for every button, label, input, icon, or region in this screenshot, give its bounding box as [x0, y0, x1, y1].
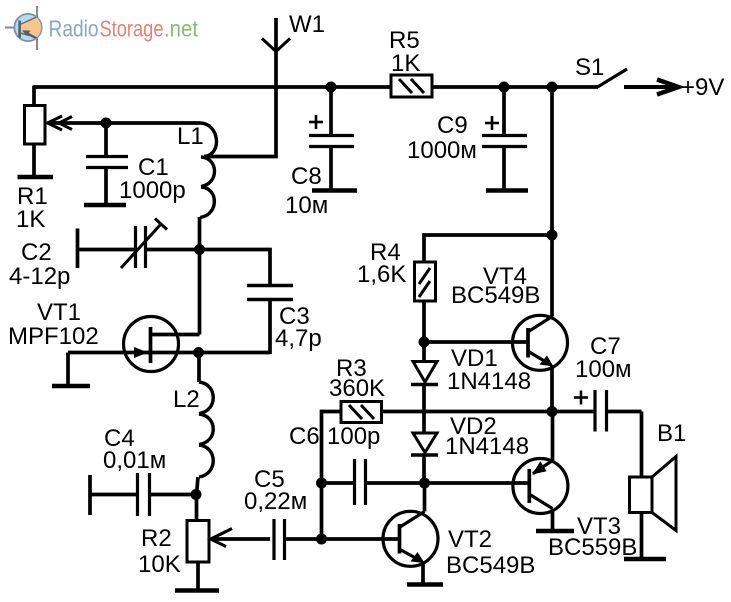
node C8 top	[326, 82, 337, 93]
wire VT1 gate/source row	[68, 351, 270, 355]
capacitor C9	[482, 87, 527, 190]
svg-text:1000м: 1000м	[407, 137, 477, 164]
wire node I to VT3 base	[425, 481, 530, 485]
svg-text:R2: R2	[141, 525, 172, 552]
svg-text:S1: S1	[575, 54, 604, 81]
wire node to L1	[106, 121, 200, 125]
wire C7 to speaker	[640, 412, 644, 478]
node A (R1 wiper / C1 / L1)	[101, 118, 112, 129]
svg-text:4-12p: 4-12p	[9, 263, 70, 290]
svg-text:4,7p: 4,7p	[275, 325, 322, 352]
capacitor C6	[322, 459, 426, 505]
resistor R5	[391, 75, 432, 97]
svg-text:BC559B: BC559B	[548, 534, 637, 561]
wire +9V rail drop	[550, 87, 554, 317]
svg-text:10м: 10м	[285, 192, 328, 219]
wire L1 tap to antenna	[204, 18, 276, 157]
wire top +9V rail	[33, 85, 598, 89]
ground (VT3)	[536, 529, 574, 534]
node E (C5 / VT2 base / C6 branch)	[316, 534, 327, 545]
speaker B1	[630, 457, 677, 560]
capacitor C8	[309, 87, 354, 190]
ground (R2)	[175, 588, 219, 593]
node H (R4 / VD1 / VT4 base)	[419, 337, 430, 348]
node I (VD2 / C6 / VT3 base / VT2 collector)	[419, 478, 430, 489]
svg-text:W1: W1	[289, 11, 325, 38]
node D (L2 / C4 / R2)	[191, 489, 202, 500]
resistor R2 (potentiometer 10K)	[187, 495, 270, 591]
svg-text:100p: 100p	[327, 423, 380, 450]
node C9 top	[499, 82, 510, 93]
capacitor C2 (trimmer 4-12p)	[78, 219, 200, 269]
diode VD1 (1N4148)	[411, 342, 438, 433]
node J (VT4 emitter / R3 / VT3 emitter / C7)	[547, 406, 558, 417]
svg-text:B1: B1	[657, 420, 686, 447]
ground (VT2)	[407, 582, 443, 587]
capacitor C7	[552, 390, 642, 432]
svg-text:L2: L2	[173, 386, 200, 413]
svg-text:Radio: Radio	[49, 16, 99, 42]
svg-text:C6: C6	[289, 423, 320, 450]
svg-text:BC549B: BC549B	[446, 552, 535, 579]
transistor VT2 (BC549B)	[383, 483, 438, 585]
resistor R1 (potentiometer)	[25, 106, 109, 178]
capacitor C5	[274, 519, 399, 560]
svg-text:C2: C2	[21, 239, 52, 266]
svg-text:1,6K: 1,6K	[357, 261, 406, 288]
svg-text:C8: C8	[291, 163, 322, 190]
node B (L1 / C2 / C3 / VT1 drain)	[194, 244, 205, 255]
resistor R3	[341, 402, 552, 423]
ground (VT1 gate)	[52, 384, 90, 389]
svg-text:MPF102: MPF102	[8, 323, 99, 350]
transistor VT4 (BC549B)	[513, 315, 568, 411]
svg-text:BC549B: BC549B	[451, 282, 540, 309]
wire node E up to node F	[320, 483, 324, 539]
inductor L2	[197, 353, 214, 495]
ground (C9)	[486, 188, 528, 193]
svg-text:360K: 360K	[329, 375, 385, 402]
transistor VT1 (JFET MPF102)	[124, 250, 200, 372]
wire node H to VT4 base	[424, 340, 528, 344]
wire node B to C3	[200, 250, 271, 285]
svg-text:1N4148: 1N4148	[445, 433, 529, 460]
ground (R1)	[18, 175, 54, 180]
node rail drop	[547, 82, 558, 93]
wire gate to ground	[66, 353, 70, 387]
svg-text:1K: 1K	[391, 50, 420, 77]
+9V arrow	[624, 80, 679, 95]
node C (VT1 source / C3 / L2)	[193, 347, 204, 358]
svg-text:Storage: Storage	[100, 16, 164, 42]
svg-text:1N4148: 1N4148	[447, 368, 531, 395]
svg-text:0,01м: 0,01м	[103, 447, 166, 474]
svg-text:100м: 100м	[575, 356, 632, 383]
node G (R4 / rail)	[547, 230, 558, 241]
inductor L1	[200, 123, 217, 250]
logo RadioStorage.net	[5, 6, 199, 50]
svg-text:1000p: 1000p	[119, 177, 186, 204]
ground (C8)	[312, 188, 357, 193]
capacitor C3	[247, 286, 293, 355]
svg-text:L1: L1	[177, 123, 204, 150]
svg-text:10K: 10K	[138, 551, 181, 578]
svg-text:C9: C9	[437, 112, 468, 139]
svg-text:VT2: VT2	[448, 526, 492, 553]
svg-text:VT1: VT1	[37, 299, 81, 326]
transistor VT3 (BC559B)	[513, 412, 568, 532]
antenna W1	[262, 39, 290, 52]
capacitor C1	[86, 157, 128, 206]
switch S1	[598, 69, 628, 87]
capacitor C4	[90, 473, 197, 516]
wire node down to C1	[104, 123, 108, 155]
svg-text:.net: .net	[164, 16, 199, 42]
wire node F up to R3	[322, 412, 342, 484]
ground (C1)	[84, 203, 126, 208]
diode VD2 (1N4148)	[411, 433, 438, 483]
svg-text:1K: 1K	[16, 206, 45, 233]
ground (B1)	[624, 557, 666, 562]
svg-text:+9V: +9V	[681, 74, 724, 101]
resistor R4	[415, 235, 553, 342]
wire left drop to R1	[32, 86, 36, 107]
node F (C6 / R3 branch)	[316, 478, 327, 489]
svg-text:0,22м: 0,22м	[244, 488, 307, 515]
